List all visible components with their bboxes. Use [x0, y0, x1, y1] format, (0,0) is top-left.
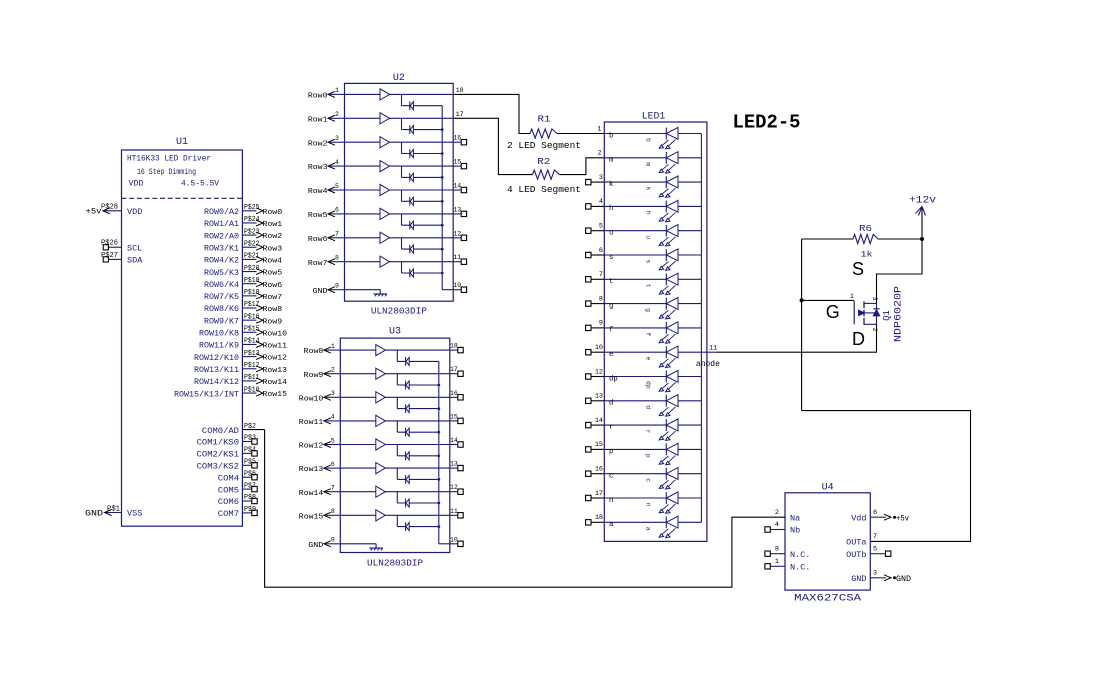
svg-text:a: a — [645, 527, 652, 531]
svg-text:18: 18 — [595, 514, 603, 522]
LED1 pin 9 segment f — [591, 327, 604, 329]
U3 diode common bus — [438, 361, 440, 543]
svg-text:GND: GND — [313, 288, 329, 296]
svg-text:Row0: Row0 — [308, 93, 328, 101]
svg-text:Row9: Row9 — [304, 372, 324, 380]
node junction R6/+12v — [920, 237, 924, 241]
svg-text:P$17: P$17 — [244, 301, 260, 309]
LED1 row h internal wire and LED — [604, 205, 666, 207]
svg-text:D: D — [852, 329, 865, 349]
svg-text:5: 5 — [335, 183, 339, 190]
svg-text:+5v: +5v — [896, 516, 909, 524]
svg-text:17: 17 — [450, 366, 458, 373]
U2 channel 6 buffer and diode — [345, 213, 454, 215]
wire gate branch to U4 OUTa — [802, 411, 971, 542]
svg-text:U2: U2 — [393, 73, 405, 84]
svg-text:3: 3 — [599, 174, 603, 182]
IC U4 MAX627CSA body — [785, 493, 870, 590]
+12v supply flag — [921, 208, 923, 240]
svg-text:1: 1 — [335, 87, 339, 94]
svg-text:9: 9 — [331, 537, 335, 544]
U2 channel 4 buffer and diode — [345, 165, 454, 167]
svg-text:ROW9/K7: ROW9/K7 — [204, 317, 239, 326]
svg-text:2: 2 — [597, 150, 601, 158]
U3 output pin 13 n.c. stub — [450, 467, 458, 469]
svg-text:11: 11 — [453, 254, 461, 261]
svg-text:7: 7 — [599, 271, 603, 279]
U3 input pin 2 net Row9 — [325, 373, 340, 375]
U3 channel 1 buffer and diode — [340, 349, 450, 351]
svg-text:Row8: Row8 — [304, 348, 324, 356]
svg-text:NDP6020P: NDP6020P — [893, 286, 904, 342]
svg-text:15: 15 — [595, 441, 603, 449]
svg-text:Row5: Row5 — [263, 270, 283, 278]
svg-text:U1: U1 — [176, 137, 188, 148]
svg-text:6: 6 — [599, 247, 603, 255]
svg-text:e: e — [609, 351, 613, 359]
svg-text:P$22: P$22 — [244, 240, 260, 248]
svg-text:Row15: Row15 — [263, 391, 288, 399]
svg-text:Row10: Row10 — [299, 395, 324, 403]
LED1 row g internal wire and LED — [604, 303, 666, 305]
U1 pin ROW12/K10 (P$13) with Row12 net flag — [242, 356, 256, 358]
wire R6 left lead and gate branch vertical — [801, 239, 803, 411]
svg-text:r: r — [645, 430, 652, 434]
svg-text:COM0/AD: COM0/AD — [202, 427, 239, 436]
svg-text:+12v: +12v — [909, 195, 936, 207]
wire Q1 drain to LED1 anode — [717, 324, 877, 352]
wire gate to Q1 — [802, 299, 855, 301]
U1 pin SDA — [108, 258, 121, 260]
svg-text:Row9: Row9 — [263, 318, 283, 326]
svg-text:2: 2 — [871, 328, 878, 332]
U2 output pin 13 n.c. stub — [453, 213, 461, 215]
resistor R6 — [853, 234, 878, 243]
U1 pin ROW5/K3 (P$20) with Row5 net flag — [242, 271, 256, 273]
U4 pin 8 N.C. — [770, 553, 785, 555]
LED1 pin 14 segment r — [591, 424, 604, 426]
svg-text:Row10: Row10 — [263, 330, 288, 338]
svg-text:14: 14 — [595, 417, 603, 425]
svg-text:b: b — [645, 138, 652, 142]
svg-text:p: p — [645, 454, 652, 458]
svg-text:MAX627CSA: MAX627CSA — [794, 593, 861, 604]
U1 pin VDD with +5v flag — [103, 210, 122, 212]
svg-text:ROW5/K3: ROW5/K3 — [204, 269, 239, 278]
LED1 pin 5 segment u — [591, 230, 604, 232]
svg-text:17: 17 — [456, 111, 464, 118]
U1 internal dashed separator — [122, 197, 243, 199]
svg-text:4: 4 — [331, 414, 335, 421]
svg-text:anode: anode — [696, 360, 720, 369]
U3 output pin 12 n.c. stub — [450, 491, 458, 493]
svg-text:Row14: Row14 — [263, 379, 288, 387]
svg-text:ROW15/K13/INT: ROW15/K13/INT — [174, 390, 239, 399]
U3 output pin 15 n.c. stub — [450, 420, 458, 422]
svg-text:LED1: LED1 — [642, 111, 666, 122]
wire U1 COM0/AD to U4 Na — [265, 430, 785, 588]
U3 GND pin 9 and ground symbol — [325, 543, 340, 545]
svg-text:g: g — [609, 302, 613, 310]
svg-text:ROW2/A0: ROW2/A0 — [204, 232, 239, 241]
svg-text:Row2: Row2 — [263, 233, 283, 241]
svg-text:P$24: P$24 — [244, 216, 260, 224]
U3 input pin 7 net Row14 — [325, 491, 340, 493]
U2 input pin 2 net Row1 — [329, 117, 344, 119]
U1 pin COM3/KS2 (P$5) — [242, 464, 251, 466]
svg-text:3: 3 — [335, 135, 339, 142]
svg-text:2 LED Segment: 2 LED Segment — [507, 140, 581, 151]
svg-text:8: 8 — [775, 545, 779, 553]
svg-text:Row6: Row6 — [263, 282, 283, 290]
svg-text:5: 5 — [873, 546, 877, 554]
svg-text:1: 1 — [597, 125, 601, 133]
svg-text:LED2-5: LED2-5 — [733, 112, 801, 134]
resistor R2 — [533, 170, 560, 179]
U3 output pin 11 n.c. stub — [450, 514, 458, 516]
svg-text:16: 16 — [595, 466, 603, 474]
svg-text:G: G — [826, 302, 840, 322]
svg-text:Q1: Q1 — [882, 310, 892, 321]
svg-text:14: 14 — [450, 437, 458, 444]
svg-text:4 LED Segment: 4 LED Segment — [507, 184, 581, 195]
U1 pin ROW3/K1 (P$22) with Row3 net flag — [242, 246, 256, 248]
U4 pin 3 GND with GND flag — [870, 577, 886, 579]
svg-text:P$27: P$27 — [101, 252, 118, 260]
U2 output pin 12 n.c. stub — [453, 237, 461, 239]
IC U3 ULN2803 body — [340, 338, 450, 552]
svg-text:GND: GND — [308, 542, 324, 550]
svg-text:N.C.: N.C. — [790, 550, 810, 560]
U3 output pin 17 n.c. stub — [450, 373, 458, 375]
svg-text:OUTa: OUTa — [846, 538, 866, 548]
svg-text:c: c — [645, 478, 652, 482]
svg-text:4.5-5.5V: 4.5-5.5V — [181, 180, 219, 189]
svg-text:ROW13/K11: ROW13/K11 — [194, 366, 239, 375]
LED1 row f internal wire and LED — [604, 327, 666, 329]
svg-text:COM1/KS0: COM1/KS0 — [197, 439, 240, 448]
svg-text:ULN2803DIP: ULN2803DIP — [367, 558, 423, 569]
svg-text:18: 18 — [450, 343, 458, 350]
svg-text:6: 6 — [873, 509, 877, 517]
LED1 row a internal wire and LED — [604, 521, 666, 523]
svg-text:P$6: P$6 — [244, 470, 256, 478]
svg-text:16: 16 — [450, 390, 458, 397]
U2 channel 7 buffer and diode — [345, 237, 454, 239]
svg-text:P$8: P$8 — [244, 494, 256, 502]
svg-text:b: b — [609, 132, 613, 140]
svg-text:2: 2 — [775, 509, 779, 517]
U3 channel 5 buffer and diode — [340, 444, 450, 446]
svg-text:ROW3/K1: ROW3/K1 — [204, 244, 239, 253]
U2 output pin 11 n.c. stub — [453, 261, 461, 263]
resistor R1 — [530, 129, 557, 138]
U2 channel 5 buffer and diode — [345, 189, 454, 191]
wire U2 pin18 to R1 — [453, 94, 530, 133]
U1 pin ROW6/K4 (P$19) with Row6 net flag — [242, 283, 256, 285]
U2 input pin 5 net Row4 — [329, 189, 344, 191]
U3 channel 2 buffer and diode — [340, 373, 450, 375]
U1 pin ROW13/K11 (P$12) with Row13 net flag — [242, 368, 256, 370]
wire R6 right lead to +12v junction — [878, 238, 922, 240]
U3 channel 3 buffer and diode — [340, 396, 450, 398]
U1 pin ROW11/K9 (P$14) with Row11 net flag — [242, 343, 256, 345]
svg-text:r: r — [609, 424, 613, 432]
LED1 row d internal wire and LED — [604, 400, 666, 402]
svg-text:SDA: SDA — [127, 256, 143, 266]
svg-text:3: 3 — [871, 297, 878, 301]
svg-text:15: 15 — [453, 159, 461, 166]
U1 pin ROW2/A0 (P$23) with Row2 net flag — [242, 234, 256, 236]
svg-text:Row2: Row2 — [308, 140, 328, 148]
svg-text:P$16: P$16 — [244, 313, 260, 321]
svg-text:10: 10 — [595, 344, 603, 352]
U4 pin 5 OUTb n.c. — [870, 553, 885, 555]
svg-text:5: 5 — [599, 223, 603, 231]
U2 output pin 16 n.c. stub — [453, 141, 461, 143]
U2 channel 2 buffer and diode — [345, 117, 454, 119]
svg-text:P$4: P$4 — [244, 447, 256, 455]
U3 channel 4 buffer and diode — [340, 420, 450, 422]
svg-text:R2: R2 — [537, 157, 550, 167]
U1 pin ROW14/K12 (P$11) with Row14 net flag — [242, 380, 256, 382]
LED1 pin 4 segment h — [591, 205, 604, 207]
U1 pin ROW4/K2 (P$21) with Row4 net flag — [242, 258, 256, 260]
U2 output pin 10 n.c. stub — [453, 289, 461, 291]
svg-text:P$1: P$1 — [107, 505, 120, 513]
LED1 row m internal wire and LED — [604, 157, 666, 159]
U1 pin COM5 (P$7) — [242, 488, 251, 490]
svg-text:10: 10 — [450, 536, 458, 543]
svg-text:17: 17 — [595, 490, 603, 498]
svg-text:16 Step Dimming: 16 Step Dimming — [137, 168, 196, 177]
LED1 row n internal wire and LED — [604, 497, 666, 499]
svg-text:ROW14/K12: ROW14/K12 — [194, 378, 239, 387]
svg-text:f: f — [645, 332, 652, 336]
svg-text:Vdd: Vdd — [851, 513, 866, 523]
svg-text:Row7: Row7 — [308, 260, 328, 268]
LED1 pin 17 segment n — [591, 497, 604, 499]
svg-text:3: 3 — [873, 570, 877, 578]
U3 channel 8 buffer and diode — [340, 514, 450, 516]
LED1 pin 18 segment a — [591, 521, 604, 523]
svg-text:u: u — [645, 235, 652, 239]
svg-text:HT16K33 LED Driver: HT16K33 LED Driver — [127, 154, 211, 163]
U3 input pin 6 net Row13 — [325, 467, 340, 469]
svg-text:P$7: P$7 — [244, 482, 256, 490]
svg-text:Row4: Row4 — [263, 258, 283, 266]
svg-text:ROW11/K9: ROW11/K9 — [199, 342, 239, 351]
svg-text:11: 11 — [450, 508, 458, 515]
LED1 pin 3 segment k — [591, 181, 604, 183]
svg-text:1: 1 — [775, 558, 779, 566]
svg-text:7: 7 — [873, 533, 877, 541]
svg-text:h: h — [645, 211, 652, 215]
U1 pin ROW10/K8 (P$15) with Row10 net flag — [242, 331, 256, 333]
U2 input pin 7 net Row6 — [329, 237, 344, 239]
LED1 row t internal wire and LED — [604, 278, 666, 280]
U1 pin COM2/KS1 (P$4) — [242, 452, 251, 454]
svg-text:12: 12 — [453, 230, 461, 237]
svg-text:R1: R1 — [538, 115, 551, 125]
svg-text:P$10: P$10 — [244, 386, 260, 394]
svg-text:Row4: Row4 — [308, 188, 328, 196]
U1 pin COM0/AD (P$2) — [242, 429, 264, 431]
U2 channel 8 buffer and diode — [345, 261, 454, 263]
LED1 row s internal wire and LED — [604, 254, 666, 256]
svg-text:g: g — [645, 308, 652, 312]
svg-text:S: S — [852, 259, 864, 279]
svg-text:N.C.: N.C. — [790, 563, 810, 573]
svg-text:e: e — [645, 357, 652, 361]
svg-text:12: 12 — [450, 484, 458, 491]
U3 channel 6 buffer and diode — [340, 467, 450, 469]
U3 input pin 3 net Row10 — [325, 396, 340, 398]
U3 input pin 4 net Row11 — [325, 420, 340, 422]
svg-text:p: p — [609, 448, 613, 456]
svg-text:9: 9 — [335, 283, 339, 290]
LED1 row u internal wire and LED — [604, 230, 666, 232]
svg-text:P$19: P$19 — [244, 277, 260, 285]
U1 pin ROW7/K5 (P$18) with Row7 net flag — [242, 295, 256, 297]
svg-text:+5v: +5v — [86, 208, 102, 217]
U2 input pin 4 net Row3 — [329, 165, 344, 167]
svg-text:9: 9 — [599, 320, 603, 328]
U1 pin ROW8/K6 (P$17) with Row8 net flag — [242, 307, 256, 309]
LED1 row k internal wire and LED — [604, 181, 666, 183]
svg-text:s: s — [645, 260, 652, 264]
svg-text:t: t — [645, 284, 652, 288]
svg-text:7: 7 — [335, 231, 339, 238]
LED1 pin 15 segment p — [591, 448, 604, 450]
U1 pin ROW0/A2 (P$25) with Row0 net flag — [242, 210, 256, 212]
LED1 anode bus — [700, 134, 702, 523]
svg-text:ULN2803DIP: ULN2803DIP — [371, 306, 427, 317]
svg-text:14: 14 — [453, 183, 461, 190]
svg-text:P$13: P$13 — [244, 350, 260, 358]
svg-text:3: 3 — [331, 390, 335, 397]
svg-text:4: 4 — [599, 198, 603, 206]
svg-text:4: 4 — [335, 159, 339, 166]
svg-text:h: h — [609, 205, 613, 213]
LED1 pin 8 segment g — [591, 303, 604, 305]
svg-text:d: d — [609, 400, 613, 408]
svg-text:18: 18 — [456, 87, 464, 94]
U3 channel 7 buffer and diode — [340, 491, 450, 493]
svg-text:P$18: P$18 — [244, 289, 260, 297]
U1 pin ROW9/K7 (P$16) with Row9 net flag — [242, 319, 256, 321]
svg-text:c: c — [609, 473, 613, 481]
svg-text:a: a — [609, 521, 614, 529]
U1 pin COM7 (P$9) — [242, 512, 251, 514]
LED1 row c internal wire and LED — [604, 473, 666, 475]
svg-text:ROW0/A2: ROW0/A2 — [204, 208, 239, 217]
svg-text:dp: dp — [609, 375, 618, 383]
svg-text:Row11: Row11 — [263, 343, 288, 351]
svg-text:Row13: Row13 — [263, 367, 288, 375]
U3 output pin 14 n.c. stub — [450, 444, 458, 446]
svg-text:Row7: Row7 — [263, 294, 283, 302]
svg-text:16: 16 — [453, 135, 461, 142]
U1 pin VSS with GND flag — [105, 512, 122, 514]
U2 output pin 15 n.c. stub — [453, 165, 461, 167]
svg-text:10: 10 — [453, 282, 461, 289]
svg-text:U4: U4 — [822, 483, 834, 494]
LED1 pin 7 segment t — [591, 278, 604, 280]
svg-text:COM6: COM6 — [218, 498, 239, 507]
LED1 pin 13 segment d — [591, 400, 604, 402]
svg-text:Row5: Row5 — [308, 212, 328, 220]
svg-text:VDD: VDD — [127, 207, 142, 217]
LED display LED1 body — [604, 122, 707, 541]
svg-text:12: 12 — [595, 368, 603, 376]
svg-text:Row1: Row1 — [308, 116, 328, 124]
svg-text:P$28: P$28 — [101, 204, 118, 212]
svg-text:ROW6/K4: ROW6/K4 — [204, 281, 239, 290]
svg-text:Row12: Row12 — [263, 355, 288, 363]
svg-text:P$3: P$3 — [244, 435, 256, 443]
svg-text:R6: R6 — [859, 224, 872, 234]
U1 pin COM4 (P$6) — [242, 476, 251, 478]
LED1 row b internal wire and LED — [604, 133, 666, 135]
svg-text:GND: GND — [896, 576, 911, 584]
svg-text:U3: U3 — [389, 327, 401, 338]
U2 GND pin 9 and ground symbol — [329, 289, 344, 291]
svg-text:GND: GND — [851, 574, 866, 584]
svg-text:Row6: Row6 — [308, 236, 328, 244]
U4 pin 1 N.C. — [770, 565, 785, 567]
svg-text:VDD: VDD — [129, 180, 144, 189]
svg-text:6: 6 — [335, 207, 339, 214]
svg-text:P$9: P$9 — [244, 506, 256, 514]
svg-text:P$5: P$5 — [244, 459, 256, 467]
svg-text:5: 5 — [331, 437, 335, 444]
svg-text:k: k — [645, 187, 652, 191]
U1 pin COM6 (P$8) — [242, 500, 251, 502]
LED1 pin 12 segment dp — [591, 376, 604, 378]
U3 input pin 8 net Row15 — [325, 514, 340, 516]
svg-text:ROW4/K2: ROW4/K2 — [204, 257, 239, 266]
svg-text:4: 4 — [775, 521, 779, 529]
wire R1 to LED1 pin1 — [557, 133, 604, 135]
svg-text:P$20: P$20 — [244, 265, 260, 273]
svg-text:P$26: P$26 — [101, 240, 118, 248]
wire R2 to LED1 pin2 — [560, 158, 605, 175]
svg-text:ROW10/K8: ROW10/K8 — [199, 330, 239, 339]
U3 output pin 10 n.c. stub — [450, 543, 458, 545]
svg-text:OUTb: OUTb — [846, 550, 866, 560]
wire gate junction dot — [800, 298, 804, 302]
svg-text:Row0: Row0 — [263, 209, 283, 217]
transistor Q1 NDP6020P (P-MOSFET) — [853, 301, 855, 324]
svg-text:m: m — [609, 157, 613, 165]
svg-text:f: f — [609, 327, 613, 335]
U1 pin ROW15/K13/INT (P$10) with Row15 net flag — [242, 392, 256, 394]
U4 pin 6 Vdd with +5v flag — [870, 516, 886, 518]
svg-text:8: 8 — [599, 295, 603, 303]
svg-text:d: d — [645, 405, 652, 409]
U2 diode common bus — [441, 106, 443, 290]
svg-text:COM5: COM5 — [218, 486, 239, 495]
svg-text:P$21: P$21 — [244, 253, 260, 261]
svg-text:n: n — [609, 497, 613, 505]
U2 input pin 6 net Row5 — [329, 213, 344, 215]
U2 input pin 8 net Row7 — [329, 261, 344, 263]
U1 pin COM1/KS0 (P$3) — [242, 441, 251, 443]
svg-text:6: 6 — [331, 461, 335, 468]
svg-text:Row1: Row1 — [263, 221, 283, 229]
LED1 pin 10 segment e — [591, 351, 604, 353]
